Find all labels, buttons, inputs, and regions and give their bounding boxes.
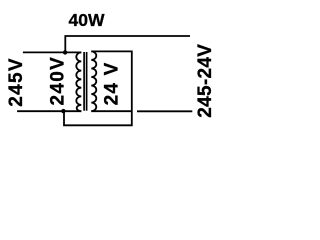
wire: top input horizontal [23, 51, 81, 53]
svg-text:24 V: 24 V [102, 61, 123, 105]
wire: bypass from bottom junction under transformer up right side [64, 51, 132, 125]
wire: secondary bottom lead [91, 110, 132, 112]
svg-text:245-24V: 245-24V [195, 44, 216, 118]
transformer T1 core [83, 52, 85, 111]
node: bottom junction [61, 109, 65, 113]
transformer T1 secondary winding [91, 51, 96, 111]
node: top junction [63, 50, 67, 54]
svg-text:240V: 240V [48, 56, 69, 106]
wire: bottom input horizontal [17, 110, 81, 112]
svg-text:40W: 40W [69, 10, 105, 30]
transformer T1 primary winding [76, 52, 81, 111]
svg-text:245V: 245V [6, 57, 27, 107]
wire: riser and top output terminal [65, 36, 190, 52]
wire: bottom output terminal [137, 110, 192, 112]
